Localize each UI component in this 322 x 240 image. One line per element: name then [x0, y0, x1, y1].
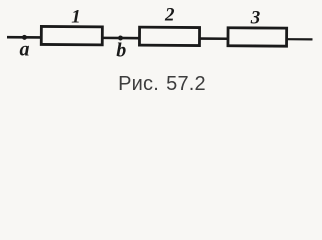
svg-text:Рис. 57.2: Рис. 57.2 [118, 73, 206, 95]
svg-text:1: 1 [71, 7, 81, 28]
svg-text:b: b [116, 40, 126, 62]
svg-text:3: 3 [250, 8, 261, 29]
svg-text:a: a [20, 38, 30, 60]
svg-text:2: 2 [164, 4, 175, 25]
